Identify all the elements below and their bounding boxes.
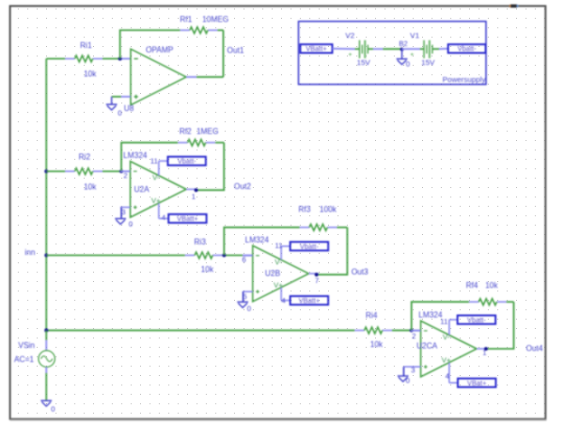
svg-text:Vbatt-: Vbatt- xyxy=(300,244,319,251)
svg-text:Powersupply: Powersupply xyxy=(443,75,486,84)
svg-text:10MEG: 10MEG xyxy=(202,15,228,24)
svg-text:V-: V- xyxy=(275,257,282,266)
svg-text:OPAMP: OPAMP xyxy=(146,46,174,55)
svg-text:V+: V+ xyxy=(151,196,160,205)
svg-text:Rf3: Rf3 xyxy=(298,205,310,214)
svg-text:1: 1 xyxy=(191,192,195,201)
svg-text:2: 2 xyxy=(412,331,416,340)
svg-text:V1: V1 xyxy=(410,31,419,40)
svg-text:+: + xyxy=(410,51,414,58)
svg-text:15V: 15V xyxy=(421,58,435,67)
svg-text:Rf2: Rf2 xyxy=(179,127,191,136)
svg-text:V-: V- xyxy=(443,333,450,342)
svg-text:Vbatt-: Vbatt- xyxy=(458,46,477,53)
svg-text:Ri3: Ri3 xyxy=(194,237,206,246)
svg-text:0: 0 xyxy=(247,304,251,313)
svg-text:10k: 10k xyxy=(84,183,97,192)
svg-text:7: 7 xyxy=(315,276,319,285)
svg-text:inn: inn xyxy=(25,248,35,257)
svg-text:AC=1: AC=1 xyxy=(14,355,34,364)
svg-text:U8: U8 xyxy=(124,104,134,113)
svg-text:V2: V2 xyxy=(345,31,354,40)
svg-text:0: 0 xyxy=(118,108,122,117)
svg-text:Out2: Out2 xyxy=(234,182,251,191)
svg-text:U2A: U2A xyxy=(134,185,150,194)
svg-text:V-: V- xyxy=(152,173,159,182)
svg-text:11: 11 xyxy=(150,157,158,166)
svg-text:0: 0 xyxy=(406,376,410,385)
svg-text:0: 0 xyxy=(129,219,133,228)
svg-text:0: 0 xyxy=(51,405,55,414)
svg-text:U2B: U2B xyxy=(265,269,280,278)
svg-text:U2CA: U2CA xyxy=(417,342,439,351)
svg-text:VBat+: VBat+ xyxy=(467,380,486,387)
svg-text:Vbatt-: Vbatt- xyxy=(177,159,196,166)
svg-text:Out1: Out1 xyxy=(227,46,244,55)
svg-text:1MEG: 1MEG xyxy=(196,127,218,136)
svg-text:Rf4: Rf4 xyxy=(466,281,479,290)
svg-text:100k: 100k xyxy=(320,205,337,214)
svg-text:Ri1: Ri1 xyxy=(80,41,92,50)
svg-text:VBatt+: VBatt+ xyxy=(299,298,320,305)
svg-text:11: 11 xyxy=(275,241,283,250)
svg-text:4: 4 xyxy=(445,371,449,380)
svg-text:10k: 10k xyxy=(84,70,97,79)
svg-text:VBatt+: VBatt+ xyxy=(177,216,198,223)
svg-text:10k: 10k xyxy=(370,340,383,349)
svg-text:Rf1: Rf1 xyxy=(180,15,192,24)
svg-text:15V: 15V xyxy=(357,58,371,67)
svg-text:LM324: LM324 xyxy=(245,235,270,244)
svg-text:+: + xyxy=(348,51,352,58)
svg-text:2: 2 xyxy=(123,171,127,180)
svg-text:Out3: Out3 xyxy=(351,268,368,277)
svg-text:4: 4 xyxy=(281,296,285,305)
svg-text:Ri4: Ri4 xyxy=(366,311,378,320)
svg-text:Ri2: Ri2 xyxy=(79,153,91,162)
svg-text:V+: V+ xyxy=(274,280,283,289)
svg-text:Vbatt-: Vbatt- xyxy=(467,317,486,324)
svg-text:VBatt+: VBatt+ xyxy=(306,46,327,53)
svg-text:Out4: Out4 xyxy=(526,344,544,353)
svg-text:VSin: VSin xyxy=(18,341,34,350)
svg-text:6: 6 xyxy=(242,255,246,264)
svg-text:B2: B2 xyxy=(399,39,408,48)
svg-text:10k: 10k xyxy=(485,281,498,290)
svg-text:10k: 10k xyxy=(201,265,214,274)
svg-text:V+: V+ xyxy=(442,356,451,365)
svg-text:11: 11 xyxy=(440,317,448,326)
svg-text:4: 4 xyxy=(161,213,165,222)
svg-text:0: 0 xyxy=(406,60,410,69)
svg-text:LM324: LM324 xyxy=(123,151,148,160)
